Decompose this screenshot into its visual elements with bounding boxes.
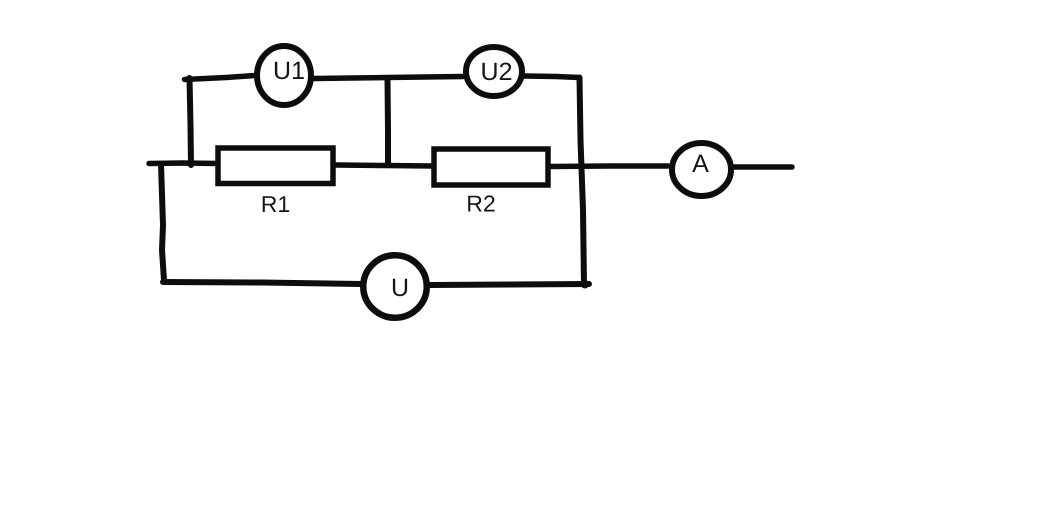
wire: middle vertical (node between R1 and R2 up to top wire) (385, 79, 392, 165)
voltmeter U2 (466, 47, 522, 96)
wire: middle branch left stub (149, 160, 218, 166)
wire: U2 to top-right corner (524, 76, 579, 78)
wire: R2 to ammeter (551, 163, 668, 169)
wire: bottom horizontal left of U (163, 282, 361, 284)
label R2 (468, 195, 494, 211)
wire: left lower vertical (161, 165, 164, 281)
label R1 (263, 196, 289, 212)
junction dot at R2 left terminal (432, 163, 438, 169)
wire: ammeter to right end (734, 164, 792, 170)
voltmeter U1 (257, 46, 311, 105)
resistor R1 (218, 148, 333, 184)
junction dot at bottom-right corner (582, 282, 589, 289)
wire: top-left horizontal to U1 (185, 76, 256, 80)
wire: U1 to U2 horizontal (314, 77, 463, 79)
resistor R2 (434, 149, 548, 185)
wire: bottom horizontal right of U (430, 284, 589, 285)
voltmeter U (363, 255, 427, 318)
wire: left upper vertical (190, 78, 192, 165)
wire: right vertical (top corner down to bottom wire) (580, 78, 585, 286)
ammeter A (672, 143, 731, 196)
wire: R1 to R2 (336, 165, 431, 166)
